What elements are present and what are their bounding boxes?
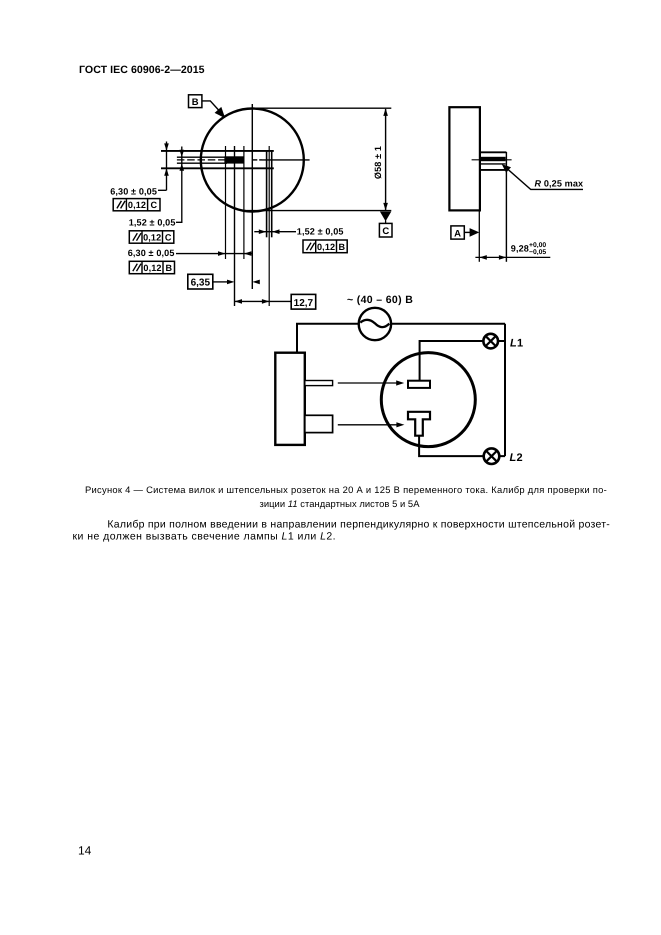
dim 6,30 C dimension line: [164, 142, 169, 191]
circuit: top wire: [297, 324, 505, 353]
datum C triangle: [380, 212, 391, 224]
blade upper edge: [177, 156, 227, 158]
datum C box: [379, 223, 392, 237]
svg-text:+0,00: +0,00: [529, 242, 546, 249]
svg-text:ГОСТ IEC 60906-2—2015: ГОСТ IEC 60906-2—2015: [79, 64, 205, 76]
top tangent extension line: [252, 107, 391, 109]
dia 58 dimension line: [383, 108, 388, 210]
dim 1,52 B dimension line: [254, 229, 296, 234]
socket T slot: [408, 412, 430, 436]
svg-text:C: C: [150, 200, 157, 210]
tolerance frame 0,12 C (upper): [113, 199, 160, 211]
circuit: L2 branch wire: [419, 436, 505, 456]
dim 6,30 C label: [110, 187, 157, 197]
tolerance frame 0,12 B (right): [303, 240, 347, 253]
svg-text:0,12: 0,12: [317, 242, 335, 252]
gauge upper pin: [305, 381, 333, 386]
paragraph line 1: [107, 519, 610, 531]
dim 6,30 C leader: [158, 189, 167, 191]
blade right edge extension line: [243, 146, 245, 259]
gauge lower pin: [305, 415, 333, 432]
dim 12,7 dimension line: [235, 299, 292, 304]
insertion arrow lower: [338, 422, 405, 427]
svg-text:6,30 ± 0,05: 6,30 ± 0,05: [110, 187, 157, 197]
slot upper edge line: [161, 150, 274, 152]
side view centerline: [472, 159, 512, 161]
blade tip filled section: [224, 156, 244, 163]
figure caption line 2: [259, 498, 420, 509]
svg-text:1,52 ± 0,05: 1,52 ± 0,05: [297, 226, 344, 236]
svg-text:9,28: 9,28: [511, 244, 529, 254]
datum B leader: [202, 101, 219, 111]
side view blade filled: [480, 157, 506, 161]
pin end extension line: [505, 152, 507, 262]
dim 9,28 label: [511, 242, 547, 256]
horizontal centerline of face view: [177, 159, 310, 161]
lamp L1 label: [510, 338, 523, 350]
narrow slot center extension line: [268, 146, 270, 306]
dia 58 label: [373, 146, 383, 179]
dim 12,7 box: [291, 294, 316, 309]
svg-text:C: C: [382, 226, 389, 237]
svg-text:6,35: 6,35: [191, 278, 211, 289]
lamp L2 label: [510, 452, 523, 464]
circuit: source label: [347, 294, 413, 306]
dim 1,52 C label: [129, 217, 176, 227]
side view pin bottom edge: [479, 169, 506, 171]
svg-text:0,12: 0,12: [143, 232, 161, 242]
page number: [78, 844, 92, 858]
lamp L2: [484, 448, 500, 464]
svg-text:12,7: 12,7: [294, 298, 314, 309]
svg-text:Калибр при полном введении в н: Калибр при полном введении в направлении…: [107, 519, 610, 531]
svg-text:6,30 ± 0,05: 6,30 ± 0,05: [128, 248, 175, 258]
svg-text:2: 2: [517, 452, 523, 464]
dim 1,52 C dimension line: [176, 147, 184, 223]
svg-text:R 0,25 max: R 0,25 max: [535, 179, 584, 189]
svg-text:L: L: [510, 338, 517, 350]
R 0,25 max leader: [502, 164, 583, 189]
svg-text:C: C: [165, 232, 172, 242]
side view slot lower line: [480, 163, 506, 165]
vertical centerline of face view: [251, 104, 253, 289]
circuit: L1 branch wire: [420, 341, 505, 381]
slot lower edge line: [161, 167, 274, 169]
svg-text:−0,05: −0,05: [529, 249, 546, 256]
svg-text:14: 14: [78, 844, 92, 858]
side view pin top edge: [479, 151, 506, 153]
svg-text:Ø58 ± 1: Ø58 ± 1: [373, 146, 383, 179]
svg-text:~ (40 – 60) В: ~ (40 – 60) В: [347, 294, 413, 306]
dim 6,30 B dimension line: [176, 251, 253, 256]
circuit: right wire: [504, 324, 506, 456]
insertion arrow upper: [338, 380, 404, 385]
svg-text:B: B: [339, 242, 346, 252]
R 0,25 max label: [535, 179, 584, 189]
side view body rectangle: [449, 107, 480, 210]
lamp L1: [483, 334, 498, 349]
dim 9,28 dimension line: [475, 255, 550, 260]
datum B box: [189, 95, 202, 108]
narrow slot right line: [271, 150, 273, 237]
datum B triangle: [215, 107, 226, 118]
socket upper slot: [408, 381, 430, 388]
socket face circle: [381, 353, 475, 447]
tolerance frame 0,12 C (middle): [129, 231, 174, 243]
svg-text:B: B: [192, 97, 199, 108]
gauge face view circle: [201, 109, 304, 212]
svg-text:1,52 ± 0,05: 1,52 ± 0,05: [129, 217, 176, 227]
blade lower edge: [177, 162, 227, 164]
figure caption line 1: [85, 484, 607, 495]
dim 6,35 box: [188, 274, 213, 289]
svg-text:1: 1: [517, 338, 523, 350]
header text: [79, 64, 205, 76]
svg-text:A: A: [454, 228, 461, 239]
dim 6,35 dimension line: [213, 280, 260, 285]
narrow slot left line: [266, 150, 268, 237]
dim 1,52 B label (right): [297, 226, 344, 236]
paragraph line 2: [73, 531, 337, 543]
datum A box: [451, 226, 464, 239]
svg-text:L: L: [510, 452, 517, 464]
svg-text:0,12: 0,12: [128, 200, 146, 210]
blade center extension line: [234, 146, 236, 306]
svg-text:зиции 11 стандартных листов 5: зиции 11 стандартных листов 5 и 5А: [259, 498, 420, 509]
svg-text:Рисунок 4 — Система вилок и шт: Рисунок 4 — Система вилок и штепсельных …: [85, 484, 607, 495]
svg-text:ки не должен вызвать свечение: ки не должен вызвать свечение лампы L1 и…: [73, 531, 337, 543]
gauge body (circuit): [275, 353, 305, 445]
bottom tangent extension line: [247, 210, 391, 212]
datum A leader and triangle: [464, 228, 479, 237]
svg-text:B: B: [165, 263, 172, 273]
blade left edge extension line: [225, 146, 227, 259]
svg-text:0,12: 0,12: [143, 263, 161, 273]
tolerance frame 0,12 B (lower): [129, 261, 174, 273]
AC source: [359, 308, 391, 340]
dim 6,30 B label: [128, 248, 175, 258]
body right edge extension line: [478, 210, 480, 261]
